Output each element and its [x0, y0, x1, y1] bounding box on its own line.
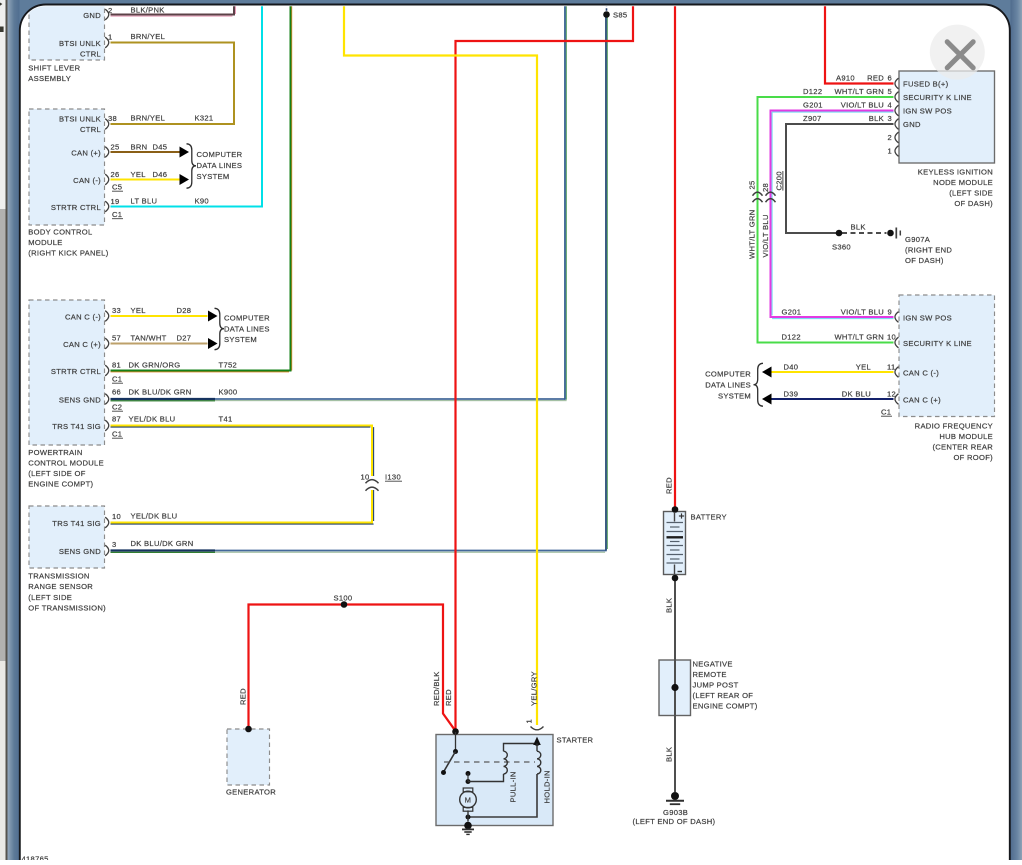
svg-text:Z907: Z907 [803, 114, 822, 123]
svg-text:D39: D39 [784, 390, 799, 399]
starter pull-in coil [468, 774, 504, 782]
svg-text:81: 81 [112, 361, 121, 370]
svg-text:D122: D122 [782, 333, 801, 342]
svg-text:S360: S360 [832, 243, 851, 252]
svg-text:BLK: BLK [869, 114, 884, 123]
wire BLK Z907 KIN pin3 to S360 [786, 124, 894, 233]
keyless ignition node module box [899, 71, 995, 163]
terminal starter B+ [452, 728, 459, 735]
brace BCM computer data lines [187, 144, 197, 188]
svg-text:CTRL: CTRL [80, 125, 101, 134]
svg-text:KEYLESS IGNITION: KEYLESS IGNITION [918, 168, 993, 177]
svg-text:IGN SW POS: IGN SW POS [903, 314, 952, 323]
svg-text:G201: G201 [782, 308, 802, 317]
shift lever assembly box [29, 0, 105, 60]
arrow D40 [762, 367, 772, 378]
svg-text:S85: S85 [613, 11, 627, 20]
wire YEL D28 PCM pin33 [111, 315, 208, 317]
svg-text:YEL: YEL [856, 363, 871, 372]
svg-text:VIO/LT BLU: VIO/LT BLU [761, 214, 770, 257]
pins left boxes [105, 9, 109, 20]
svg-text:TRS T41 SIG: TRS T41 SIG [52, 422, 101, 431]
svg-text:C1: C1 [112, 430, 122, 439]
svg-text:C5: C5 [112, 183, 122, 192]
wire WHT/LT GRN D122 KIN pin5 to RF pin10 [758, 97, 894, 343]
svg-text:D46: D46 [153, 170, 168, 179]
svg-text:12: 12 [887, 390, 896, 399]
svg-text:3: 3 [112, 540, 117, 549]
starter switch [455, 732, 457, 752]
svg-text:C1: C1 [881, 408, 891, 417]
svg-text:RED: RED [665, 477, 674, 494]
connector C200 arcs on VIO/LT BLU [766, 192, 776, 196]
svg-text:10: 10 [887, 333, 896, 342]
svg-text:MODULE: MODULE [28, 238, 62, 247]
wire RED A910 top to KIN pin6 [825, 6, 894, 84]
svg-text:PULL-IN: PULL-IN [509, 771, 518, 802]
starter mech dashed link [444, 761, 535, 763]
splice S360 [836, 230, 843, 237]
svg-text:(RIGHT END: (RIGHT END [905, 246, 952, 255]
svg-text:LT BLU: LT BLU [131, 197, 158, 206]
svg-text:SECURITY K LINE: SECURITY K LINE [903, 93, 972, 102]
svg-text:I130: I130 [385, 473, 401, 482]
svg-text:K321: K321 [195, 114, 214, 123]
svg-text:D40: D40 [784, 363, 799, 372]
svg-text:D27: D27 [177, 334, 192, 343]
terminal generator [245, 726, 252, 733]
svg-text:DATA LINES: DATA LINES [224, 325, 270, 334]
svg-text:REMOTE: REMOTE [693, 670, 727, 679]
pins right boxes [895, 78, 899, 89]
svg-text:YEL/DK BLU: YEL/DK BLU [129, 415, 176, 424]
svg-text:YEL/GRY: YEL/GRY [530, 671, 539, 706]
svg-text:YEL/DK BLU: YEL/DK BLU [131, 512, 178, 521]
svg-text:STRTR CTRL: STRTR CTRL [51, 203, 101, 212]
svg-text:19: 19 [111, 197, 120, 206]
svg-text:FUSED B(+): FUSED B(+) [903, 80, 949, 89]
svg-text:(LEFT SIDE: (LEFT SIDE [949, 189, 993, 198]
svg-text:BTSI UNLK: BTSI UNLK [59, 39, 101, 48]
svg-text:K900: K900 [219, 388, 238, 397]
svg-text:CAN C (-): CAN C (-) [65, 313, 101, 322]
svg-text:(LEFT SIDE: (LEFT SIDE [28, 593, 72, 602]
svg-text:D28: D28 [177, 306, 192, 315]
close button [930, 25, 985, 80]
svg-text:5: 5 [887, 87, 892, 96]
wire DK BLU/DK GRN TRS pin3 to S85 [111, 549, 216, 551]
wire DK GRN/ORG T752 PCM pin81 [111, 6, 291, 371]
svg-text:38: 38 [108, 114, 117, 123]
wire BLK/PNK shift lever pin 2 [111, 6, 235, 15]
svg-text:GND: GND [83, 11, 101, 20]
svg-text:A910: A910 [836, 74, 855, 83]
powertrain control module box [29, 300, 105, 445]
svg-text:BLK: BLK [851, 223, 866, 232]
svg-text:D45: D45 [153, 143, 168, 152]
starter motor M [460, 791, 477, 808]
svg-text:NEGATIVE: NEGATIVE [693, 660, 733, 669]
svg-text:VIO/LT BLU: VIO/LT BLU [841, 101, 884, 110]
svg-text:SENS GND: SENS GND [59, 547, 101, 556]
wire BRN D45 BCM pin25 [111, 151, 180, 153]
ground G907A symbol [887, 230, 894, 237]
svg-text:SENS GND: SENS GND [59, 396, 101, 405]
generator box [227, 729, 270, 785]
arrow D45 [180, 147, 190, 158]
svg-text:(CENTER REAR: (CENTER REAR [932, 443, 993, 452]
starter hold-in coil [533, 737, 541, 745]
arrow D39 [762, 394, 772, 405]
svg-text:33: 33 [112, 306, 121, 315]
svg-text:25: 25 [111, 143, 120, 152]
splice S85 [606, 5, 608, 11]
svg-text:SHIFT LEVER: SHIFT LEVER [28, 64, 80, 73]
svg-text:CONTROL MODULE: CONTROL MODULE [28, 459, 104, 468]
svg-text:6: 6 [887, 74, 892, 83]
svg-text:66: 66 [112, 388, 121, 397]
wire YEL/GRY to starter pin1 [344, 6, 537, 725]
svg-text:10: 10 [360, 473, 369, 482]
svg-text:25: 25 [748, 180, 757, 189]
splice S100 [341, 601, 348, 608]
svg-text:10: 10 [112, 512, 121, 521]
svg-text:T752: T752 [219, 361, 238, 370]
svg-text:JUMP POST: JUMP POST [693, 681, 739, 690]
svg-text:DK GRN/ORG: DK GRN/ORG [129, 361, 181, 370]
svg-text:STARTER: STARTER [557, 736, 594, 745]
svg-text:BRN/YEL: BRN/YEL [131, 114, 166, 123]
svg-text:T41: T41 [219, 415, 233, 424]
wire YEL D46 BCM pin26 [111, 179, 180, 181]
svg-text:HOLD-IN: HOLD-IN [543, 770, 552, 803]
svg-text:BLK: BLK [665, 747, 674, 762]
svg-text:RED/BLK: RED/BLK [432, 671, 441, 706]
svg-text:WHT/LT GRN: WHT/LT GRN [834, 87, 884, 96]
svg-text:4: 4 [887, 101, 892, 110]
svg-text:BRN: BRN [131, 143, 148, 152]
svg-text:BLK/PNK: BLK/PNK [131, 6, 165, 15]
brace PCM computer data lines [215, 308, 225, 349]
svg-text:SYSTEM: SYSTEM [718, 392, 751, 401]
svg-text:C1: C1 [112, 210, 122, 219]
svg-text:M: M [465, 796, 472, 805]
svg-text:DATA LINES: DATA LINES [705, 381, 751, 390]
svg-text:ENGINE COMPT): ENGINE COMPT) [693, 702, 758, 711]
svg-text:BODY CONTROL: BODY CONTROL [28, 228, 92, 237]
svg-text:C1: C1 [112, 375, 122, 384]
wire YEL/DK BLU below I130 to TRS pin10 [111, 490, 373, 523]
svg-text:G903B: G903B [663, 808, 688, 817]
svg-text:(RIGHT KICK PANEL): (RIGHT KICK PANEL) [28, 248, 108, 257]
svg-text:IGN SW POS: IGN SW POS [903, 107, 952, 116]
svg-text:OF DASH): OF DASH) [905, 256, 944, 265]
wire BRN/YEL K321 shift pin1 to BCM pin38 [111, 43, 235, 125]
svg-text:TRS T41 SIG: TRS T41 SIG [52, 519, 101, 528]
svg-text:C200: C200 [775, 171, 784, 190]
svg-text:CAN C (+): CAN C (+) [63, 340, 101, 349]
svg-text:DATA LINES: DATA LINES [197, 161, 243, 170]
svg-text:11: 11 [887, 363, 895, 372]
svg-text:RED: RED [444, 689, 453, 706]
svg-text:DK BLU: DK BLU [842, 390, 871, 399]
wire TAN/WHT D27 PCM pin57 [111, 343, 208, 345]
radio frequency hub module box [899, 295, 995, 417]
svg-text:BLK: BLK [665, 598, 674, 613]
svg-text:(LEFT REAR OF: (LEFT REAR OF [693, 691, 754, 700]
wire YEL D40 RF pin11 [772, 371, 894, 373]
svg-text:2: 2 [887, 133, 892, 142]
svg-text:DK BLU/DK GRN: DK BLU/DK GRN [129, 388, 192, 397]
svg-text:COMPUTER: COMPUTER [705, 370, 751, 379]
svg-text:CAN (-): CAN (-) [73, 176, 101, 185]
svg-text:GND: GND [903, 120, 921, 129]
svg-text:CTRL: CTRL [80, 50, 101, 59]
svg-text:SYSTEM: SYSTEM [224, 335, 257, 344]
svg-text:28: 28 [761, 183, 770, 192]
connector starter pin1 [531, 727, 544, 730]
wire BLK dashed S360 to G907A [842, 232, 887, 234]
svg-text:418765: 418765 [22, 855, 49, 861]
svg-text:SYSTEM: SYSTEM [197, 172, 230, 181]
arrow D46 [180, 174, 190, 185]
wire BLK battery negative to jump post [674, 578, 676, 792]
arrow D27 [208, 338, 218, 349]
svg-text:YEL: YEL [131, 170, 146, 179]
svg-text:1: 1 [108, 33, 113, 42]
svg-text:STRTR CTRL: STRTR CTRL [51, 367, 101, 376]
starter box [436, 735, 553, 826]
svg-text:3: 3 [887, 114, 892, 123]
svg-text:NODE MODULE: NODE MODULE [933, 178, 993, 187]
wire DK BLU D39 RF pin12 [772, 398, 894, 400]
svg-text:(LEFT END OF DASH): (LEFT END OF DASH) [633, 817, 716, 826]
svg-text:C2: C2 [112, 403, 122, 412]
ground G903B [671, 792, 679, 800]
svg-text:POWERTRAIN: POWERTRAIN [28, 448, 82, 457]
svg-text:RADIO FREQUENCY: RADIO FREQUENCY [915, 422, 993, 431]
wire RED battery positive [674, 6, 676, 509]
wire RED generator S100 RED/BLK [249, 605, 456, 731]
wire LT BLU K90 BCM pin19 [111, 6, 263, 207]
svg-text:BRN/YEL: BRN/YEL [131, 32, 166, 41]
svg-text:OF TRANSMISSION): OF TRANSMISSION) [28, 604, 106, 613]
svg-text:BATTERY: BATTERY [691, 513, 727, 522]
svg-text:2: 2 [108, 6, 113, 15]
svg-text:SECURITY K LINE: SECURITY K LINE [903, 339, 972, 348]
svg-text:D122: D122 [803, 87, 822, 96]
svg-text:OF ROOF): OF ROOF) [953, 453, 993, 462]
starter ground [464, 822, 472, 830]
svg-text:S100: S100 [334, 594, 353, 603]
svg-text:57: 57 [112, 334, 121, 343]
body control module box [29, 109, 105, 225]
battery symbol plates [674, 512, 676, 522]
svg-text:DK BLU/DK GRN: DK BLU/DK GRN [131, 539, 194, 548]
starter contact dots [466, 771, 471, 776]
svg-text:RANGE SENSOR: RANGE SENSOR [28, 582, 93, 591]
wire DK BLU/DK GRN K900 PCM pin66 [111, 398, 216, 400]
svg-text:BTSI UNLK: BTSI UNLK [59, 115, 101, 124]
svg-text:RED: RED [867, 74, 884, 83]
svg-text:YEL: YEL [131, 306, 146, 315]
wire YEL/DK BLU T41 PCM pin87 to I130 [111, 426, 373, 477]
battery terminals [672, 506, 679, 513]
svg-text:HUB MODULE: HUB MODULE [939, 432, 993, 441]
svg-text:87: 87 [112, 415, 121, 424]
svg-text:(LEFT SIDE OF: (LEFT SIDE OF [28, 469, 85, 478]
brace RF computer data lines [754, 363, 764, 406]
svg-text:9: 9 [888, 308, 893, 317]
svg-text:ENGINE COMPT): ENGINE COMPT) [28, 480, 93, 489]
svg-text:GENERATOR: GENERATOR [226, 788, 276, 797]
svg-text:CAN (+): CAN (+) [71, 149, 101, 158]
svg-text:1: 1 [887, 147, 892, 156]
svg-text:OF DASH): OF DASH) [954, 199, 993, 208]
svg-text:CAN C (-): CAN C (-) [903, 369, 939, 378]
connector C200 arcs on WHT/LT GRN [753, 192, 763, 196]
battery box [664, 512, 686, 575]
svg-text:RED: RED [239, 688, 248, 705]
svg-text:WHT/LT GRN: WHT/LT GRN [834, 333, 884, 342]
svg-text:TAN/WHT: TAN/WHT [131, 334, 167, 343]
svg-text:ASSEMBLY: ASSEMBLY [28, 74, 71, 83]
transmission range sensor box [29, 506, 105, 568]
svg-text:G201: G201 [803, 101, 823, 110]
svg-text:1: 1 [525, 719, 534, 724]
negative remote jump post box [659, 660, 691, 716]
svg-text:COMPUTER: COMPUTER [197, 150, 243, 159]
svg-text:G907A: G907A [905, 235, 931, 244]
svg-text:COMPUTER: COMPUTER [224, 314, 270, 323]
wire RED starter to top [456, 6, 634, 731]
arrow D28 [208, 311, 218, 322]
connector I130 [366, 480, 379, 484]
svg-text:26: 26 [111, 170, 120, 179]
jump post dot [671, 684, 678, 691]
svg-text:VIO/LT BLU: VIO/LT BLU [841, 308, 884, 317]
svg-text:K90: K90 [195, 197, 209, 206]
svg-text:TRANSMISSION: TRANSMISSION [28, 572, 89, 581]
svg-text:CAN C (+): CAN C (+) [903, 396, 941, 405]
wire VIO/LT BLU G201 KIN pin4 to RF pin9 [771, 111, 894, 318]
svg-text:WHT/LT GRN: WHT/LT GRN [748, 209, 757, 259]
